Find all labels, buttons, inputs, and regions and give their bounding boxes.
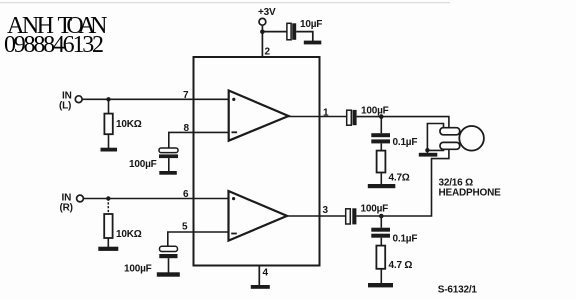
ground headphone [419,153,438,157]
C2 value 100uF [129,159,157,170]
capacitor C7 0.1uF [371,228,390,238]
C3 value 100uF [124,264,152,275]
wire +3V to pin2 [261,25,263,57]
svg-text:HEADPHONE: HEADPHONE [439,188,502,199]
svg-text:100µF: 100µF [361,105,389,116]
capacitor C2 100uF [159,148,178,158]
R2 value 10K [116,229,142,240]
wire pin8 to C2 [169,132,229,148]
R3 value 4.7 ohm [389,173,410,184]
svg-text:7: 7 [183,90,189,101]
svg-text:100µF: 100µF [361,203,389,214]
svg-text:100µF: 100µF [124,264,152,275]
pin 1 label [323,107,329,118]
wire C7 to R4 [380,238,382,246]
C5 value 0.1uF [393,137,418,148]
ground R3 [368,184,396,188]
svg-text:S-6132/1: S-6132/1 [438,284,478,295]
op-amp A1 (top) [229,91,289,141]
wire pin1 output to C4 [288,116,347,118]
supply terminal [259,18,266,25]
input terminal L [75,96,82,103]
pin 8 label [184,123,190,134]
ground R2 [98,247,118,251]
wire C3 to ground [168,258,170,272]
+3V label [258,7,276,18]
wire C2 to ground [168,158,170,171]
R1 value 10K [116,119,142,130]
node supply junction [260,30,265,35]
pin 6 label [183,189,189,200]
wire C4 to headphone [357,117,449,129]
svg-text:10µF: 10µF [300,19,322,30]
capacitor C4 100uF [347,110,357,125]
svg-text:100µF: 100µF [129,159,157,170]
R4 value 4.7 ohm [389,260,413,271]
wire R4 to ground [380,269,382,283]
schematic number S-6132/1 [438,284,478,295]
wire R1 to ground [108,134,110,148]
IN (R) label [60,193,73,214]
IN (L) label [59,91,72,112]
C4 value 100uF [361,105,389,116]
wire headphone common bracket [427,124,443,151]
svg-text:10KΩ: 10KΩ [116,119,142,130]
headphone label HEADPHONE [439,188,502,199]
headphone label 32/16 ohm [439,177,474,188]
capacitor C5 0.1uF [371,133,390,143]
svg-text:(L): (L) [59,100,71,111]
op-amp A2 (bottom) [229,191,288,241]
C1 value 10uF [300,19,322,30]
wire R2 to ground [107,238,109,247]
ground R4 [368,283,393,287]
pin 3 label [323,205,329,216]
svg-text:0.1µF: 0.1µF [393,137,418,148]
input terminal R [77,195,84,202]
wire junction to R2 [107,199,109,215]
capacitor C6 100uF [346,208,357,224]
capacitor C1 10uF [287,23,296,40]
wire input L to pin7 [82,98,229,100]
svg-text:3: 3 [323,205,329,216]
svg-text:0988846132: 0988846132 [4,32,104,58]
resistor R2 10K [104,214,112,238]
pin 4 label [263,268,269,279]
pin 2 label [265,47,271,58]
IC U1 box [194,57,320,266]
wire junction to R1 [108,99,110,113]
svg-text:4.7Ω: 4.7Ω [389,173,410,184]
resistor R4 4.7 ohm [376,246,385,269]
ground C2 [159,171,177,175]
svg-text:0.1µF: 0.1µF [393,234,418,245]
svg-text:5: 5 [182,221,188,232]
C7 value 0.1uF [393,234,418,245]
wire pin4 to ground [258,266,260,286]
node ch1 junction [379,114,384,119]
node ch2 junction [379,214,384,219]
svg-text:4.7 Ω: 4.7 Ω [389,260,413,271]
C6 value 100uF [361,203,389,214]
svg-text:2: 2 [265,47,271,58]
node R input junction [106,196,110,200]
svg-text:4: 4 [263,268,269,279]
wire C5 to R3 [380,143,382,150]
wire junction to C5 [380,117,382,134]
wire C1 to ground [296,32,313,41]
pin 7 label [183,90,189,101]
ground pin4 [251,285,270,289]
wire C6 to headphone [356,149,449,216]
wire pin5 to C3 [168,232,229,246]
node L input junction [106,97,110,101]
resistor R1 10K [104,114,112,135]
ground C3 [157,272,180,276]
pin 5 label [182,221,188,232]
svg-text:(R): (R) [60,203,73,214]
wire input R to pin6 [84,198,229,200]
ground C1 [304,41,322,45]
wire junction to ground [426,150,428,153]
title text ANH TOAN [7,13,108,39]
wire pin3 output to C6 [287,215,346,217]
capacitor C3 100uF [159,246,177,258]
svg-text:10KΩ: 10KΩ [116,229,142,240]
wire R3 to ground [380,173,382,185]
ground R1 [101,148,118,152]
svg-text:+3V: +3V [258,7,276,18]
wire junction to C7 [380,216,382,228]
headphone SP1 [440,126,484,151]
svg-text:6: 6 [183,189,189,200]
node headphone ground junction [425,148,429,152]
wire supply to C1 [262,31,287,33]
phone number 0988846132 [4,32,104,58]
resistor R3 4.7 ohm [377,151,386,173]
